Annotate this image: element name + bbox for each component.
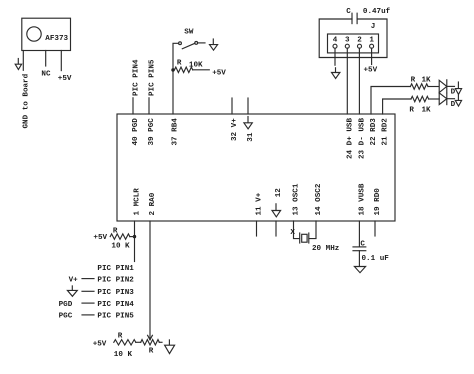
svg-text:PIC PIN4: PIC PIN4 — [97, 301, 134, 309]
svg-text:D: D — [451, 101, 456, 109]
wire dash — [82, 302, 94, 304]
wire OSC2 — [309, 221, 316, 239]
svg-text:10K: 10K — [189, 61, 203, 69]
svg-text:18 VUSB: 18 VUSB — [359, 183, 367, 215]
svg-text:31: 31 — [247, 132, 255, 142]
connector U2 AF373 — [22, 18, 71, 50]
wire pin 31 stub — [247, 98, 249, 114]
svg-text:NC: NC — [41, 70, 51, 78]
wire — [130, 236, 135, 238]
svg-text:12: 12 — [275, 188, 283, 198]
svg-text:22 RD3: 22 RD3 — [370, 118, 378, 146]
wire J pin4 — [334, 48, 336, 65]
svg-text:PIC PIN3: PIC PIN3 — [97, 289, 134, 297]
ground — [455, 95, 461, 106]
svg-text:20 MHz: 20 MHz — [312, 245, 339, 253]
svg-text:R: R — [409, 106, 414, 114]
svg-text:37 RB4: 37 RB4 — [172, 118, 180, 146]
svg-text:R: R — [411, 77, 416, 85]
pin 1 — [369, 36, 374, 48]
svg-text:0.1 uF: 0.1 uF — [362, 255, 390, 263]
wire J pin3 to pin 24 — [346, 48, 348, 114]
ground — [354, 267, 365, 273]
svg-text:+5V: +5V — [364, 67, 378, 75]
resistor R 1K — [411, 96, 429, 101]
wire pin 32 stub — [231, 98, 233, 114]
svg-text:C: C — [346, 8, 351, 16]
svg-text:AF373: AF373 — [45, 35, 68, 43]
svg-text:40 PGD: 40 PGD — [132, 118, 140, 146]
wire — [159, 341, 162, 343]
switch SW — [173, 42, 205, 71]
wire MCLR — [134, 221, 136, 262]
resistor R 10 K — [110, 234, 130, 239]
IC U1 PIC — [117, 114, 395, 221]
wire RD0 stub — [374, 221, 376, 236]
wire — [136, 341, 141, 343]
svg-text:32 V+: 32 V+ — [231, 118, 239, 141]
LED D1 — [439, 80, 454, 93]
resistor R 10 K — [114, 340, 136, 345]
svg-text:19 RD0: 19 RD0 — [374, 188, 382, 216]
ground — [210, 39, 218, 50]
svg-text:PIC PIN5: PIC PIN5 — [97, 313, 134, 321]
svg-text:13 OSC1: 13 OSC1 — [293, 183, 301, 215]
resistor R 1K — [410, 84, 428, 89]
wire RD2 to resistor — [383, 99, 411, 114]
junction — [171, 68, 174, 71]
wire dash — [82, 278, 94, 280]
svg-text:+5V: +5V — [93, 234, 107, 242]
svg-text:R: R — [118, 332, 123, 340]
svg-text:1K: 1K — [422, 77, 432, 85]
wire AF373 pin3 leg — [60, 51, 62, 71]
crystal X — [300, 233, 309, 243]
svg-text:1 MCLR: 1 MCLR — [134, 188, 142, 216]
svg-text:PGC: PGC — [59, 313, 73, 321]
svg-text:PIC PIN5: PIC PIN5 — [149, 59, 157, 96]
svg-text:GND to Board: GND to Board — [23, 73, 31, 128]
wire OSC1 — [294, 221, 300, 239]
svg-text:21 RD2: 21 RD2 — [382, 118, 390, 146]
svg-text:PIC PIN4: PIC PIN4 — [133, 59, 141, 96]
ground (pin 31) — [244, 117, 252, 129]
ground — [165, 340, 175, 354]
wire dash — [82, 290, 94, 292]
wire J pin1 — [371, 48, 373, 64]
wire RB4 — [172, 70, 174, 114]
svg-text:10 K: 10 K — [111, 243, 130, 251]
wire pin 11 stub — [256, 221, 258, 236]
connector J outer box — [319, 19, 387, 58]
wiper arrowhead — [148, 335, 153, 340]
svg-text:1: 1 — [369, 36, 374, 44]
potentiometer R — [141, 340, 160, 345]
resistor R 10K — [175, 67, 193, 72]
svg-text:R: R — [149, 348, 154, 356]
wire RA0 — [149, 221, 151, 339]
ground — [67, 286, 77, 296]
LED D2 — [439, 93, 454, 105]
svg-text:2 RA0: 2 RA0 — [149, 192, 157, 215]
connector J pin row — [328, 34, 379, 53]
wire VUSB — [358, 221, 360, 247]
wire — [429, 98, 440, 100]
wire AF373 pin2 leg — [45, 51, 47, 67]
wire RD3 to resistor — [371, 87, 410, 115]
ground — [332, 68, 340, 79]
capacitor C 0.47uf — [352, 13, 357, 23]
wire — [148, 98, 150, 114]
svg-text:14 OSC2: 14 OSC2 — [315, 183, 323, 215]
svg-text:PIC PIN2: PIC PIN2 — [97, 276, 134, 284]
svg-text:24 D+ USB: 24 D+ USB — [346, 118, 354, 159]
svg-text:PIC PIN1: PIC PIN1 — [97, 265, 134, 273]
svg-text:23 D- USB: 23 D- USB — [358, 118, 366, 159]
wire dash — [82, 314, 94, 316]
svg-text:4: 4 — [333, 36, 338, 44]
wire — [132, 98, 134, 114]
svg-text:PGD: PGD — [59, 301, 73, 309]
svg-text:39 PGC: 39 PGC — [148, 118, 156, 146]
svg-text:J: J — [371, 23, 376, 31]
svg-text:11 V+: 11 V+ — [256, 192, 264, 215]
svg-text:D: D — [451, 89, 456, 97]
wire J pin2 to pin 23 — [358, 48, 360, 114]
svg-text:2: 2 — [357, 36, 362, 44]
wire pin 12 stub — [275, 221, 277, 236]
svg-text:+5V: +5V — [212, 70, 226, 78]
pin 4 — [333, 36, 338, 48]
capacitor C 0.1 uF — [353, 247, 366, 251]
svg-text:+5V: +5V — [93, 340, 107, 348]
ground — [455, 82, 461, 94]
pin 3 — [345, 36, 350, 48]
svg-text:1K: 1K — [422, 106, 432, 114]
svg-text:10 K: 10 K — [114, 351, 133, 359]
wire — [428, 86, 439, 88]
wire — [193, 69, 210, 71]
svg-text:0.47uf: 0.47uf — [363, 8, 391, 16]
svg-text:C: C — [360, 240, 365, 248]
svg-text:+5V: +5V — [58, 75, 72, 83]
svg-text:3: 3 — [345, 36, 350, 44]
svg-text:SW: SW — [184, 28, 194, 36]
junction — [133, 235, 136, 238]
svg-text:X: X — [290, 229, 295, 237]
svg-text:R: R — [177, 60, 182, 68]
pin 2 — [357, 36, 362, 48]
wire — [358, 251, 360, 266]
wire AF373 pin1 leg — [22, 51, 24, 71]
svg-text:R: R — [113, 227, 118, 235]
ground (pin 12) — [272, 204, 281, 217]
ground — [15, 59, 21, 70]
svg-text:V+: V+ — [69, 276, 79, 284]
